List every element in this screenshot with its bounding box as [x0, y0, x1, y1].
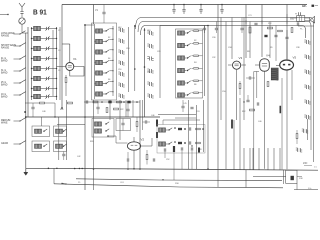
capacitor C66 AF [143, 120, 151, 123]
wire drop x250 [249, 22, 251, 59]
wire V5 leads [276, 66, 287, 170]
capacitor C61a [108, 101, 111, 104]
wire drop bottom x280 [279, 148, 281, 170]
wire bank A rail left [27, 27, 29, 117]
capacitor C92 [191, 145, 193, 150]
resistor R36 [296, 130, 298, 144]
wire drop bottom x274 [273, 148, 275, 170]
resistor R4 AGC [68, 102, 73, 104]
wire padder col rail [128, 27, 130, 92]
svg-text:C32: C32 [212, 57, 215, 59]
wire centre rail e [132, 100, 134, 117]
wire drop x218 [217, 5, 219, 170]
label band 41 m [1, 56, 26, 63]
wire bank A rail 4 [59, 27, 61, 100]
wire bank B rail [84, 25, 86, 190]
svg-text:GRAM: GRAM [1, 142, 8, 145]
padder C20 [118, 28, 124, 32]
svg-text:R30: R30 [175, 183, 180, 185]
transformer output [297, 16, 305, 22]
capacitor C90 [164, 148, 166, 158]
svg-text:BAND: BAND [1, 95, 8, 98]
mixer coil L16 [178, 30, 203, 35]
wire drop x287 [286, 5, 288, 60]
wire drop bottom x244 [243, 148, 245, 170]
resistor R62 [291, 28, 293, 33]
capacitor C47 right low [296, 148, 302, 152]
svg-text:S6: S6 [108, 79, 110, 81]
transformer IFT3 hatched [271, 68, 278, 80]
svg-text:RANGE: RANGE [1, 34, 10, 37]
resistor R60 [249, 27, 251, 33]
junction bus dots [93, 168, 209, 180]
svg-text:C21: C21 [248, 15, 253, 17]
svg-text:V2: V2 [141, 138, 145, 142]
parts small right [243, 101, 258, 105]
svg-text:P.L.: P.L. [300, 28, 304, 30]
wire bank A rail right [56, 27, 58, 100]
wire drop x232 [231, 18, 233, 60]
wire padder link outer [136, 18, 314, 163]
wire drop x283 low [282, 170, 284, 184]
svg-text:S2: S2 [108, 37, 110, 39]
capacitor C34 row [215, 22, 218, 34]
box output unit [157, 125, 205, 154]
oscillator coil L13 [95, 70, 114, 75]
wire bank A to V1 [57, 66, 66, 68]
svg-text:C61: C61 [120, 182, 125, 184]
resistor R61 [268, 27, 273, 29]
svg-text:C52: C52 [166, 159, 169, 161]
wire AGC bus [25, 116, 160, 118]
svg-text:C30: C30 [212, 37, 215, 39]
label band 31 m [1, 68, 26, 75]
capacitor C201 decoupling [199, 4, 202, 14]
wire drop x282 [281, 78, 283, 169]
wire centre rail d [125, 100, 127, 117]
label band LONG WAVE [1, 31, 26, 38]
svg-text:C2: C2 [58, 30, 60, 32]
ground chassis [24, 168, 28, 175]
svg-text:C12: C12 [118, 27, 121, 29]
wire centre rail b [109, 100, 111, 120]
capacitor C33 row [203, 26, 206, 34]
padder C30 [147, 82, 153, 86]
resistor R25 dark [156, 120, 158, 127]
svg-text:V5: V5 [293, 56, 297, 60]
box wave switch unit [92, 119, 114, 138]
wire V2 anode [133, 137, 135, 142]
coil L3 with trimmer C3 [31, 46, 57, 50]
svg-text:R38: R38 [299, 178, 304, 180]
svg-text:V1: V1 [73, 57, 77, 61]
svg-text:RANGE: RANGE [1, 46, 10, 49]
wire out line1 [158, 114, 196, 116]
svg-text:BAND: BAND [1, 59, 8, 62]
padder C26 [147, 31, 153, 35]
wire drop x226 [225, 22, 227, 170]
wire drop x246 low [245, 170, 247, 188]
capacitor C68 [127, 152, 129, 170]
capacitor C67 bypass [153, 158, 155, 161]
svg-text:BAND: BAND [1, 83, 8, 86]
capacitor C97 [297, 22, 299, 25]
speaker LS [305, 16, 315, 23]
padder C43 [304, 85, 310, 89]
wire speaker leads [290, 18, 314, 30]
svg-text:S4: S4 [108, 58, 110, 60]
svg-text:C14: C14 [126, 48, 129, 50]
wire drop x218 low [217, 169, 219, 187]
wire top right links [246, 14, 287, 24]
wire padder col rail2 [134, 25, 136, 91]
wire out link right [163, 120, 200, 125]
svg-text:V4: V4 [266, 54, 270, 58]
svg-text:1.5: 1.5 [314, 167, 318, 169]
mixer coil L18 [178, 55, 203, 60]
resistor R24 vol [136, 117, 138, 132]
capacitor C35 row [240, 18, 243, 34]
padder C27 [147, 44, 153, 48]
svg-text:BAND: BAND [1, 71, 8, 74]
svg-text:C16: C16 [118, 69, 121, 71]
label part values [78, 182, 180, 185]
capacitor aerial coupling [20, 12, 23, 17]
mixer coil L17 [178, 43, 203, 48]
svg-text:C20: C20 [157, 51, 160, 53]
wire left earth drop [25, 33, 27, 168]
oscillator coil L15 [95, 91, 114, 96]
capacitor C96 [274, 35, 277, 37]
wire det row link [84, 101, 140, 103]
capacitor C70 [181, 100, 184, 112]
svg-text:C38: C38 [296, 47, 299, 49]
capacitor C60 [86, 100, 88, 103]
box IF filter [116, 119, 131, 131]
capacitor C222 decoupling [220, 4, 223, 14]
oscillator coil L10 [95, 39, 114, 44]
wire centre rail g [142, 100, 144, 130]
wire padder link middle [138, 22, 311, 151]
resistor R50 dark [173, 146, 175, 152]
wire out line2 [175, 117, 196, 119]
switch output row2 [159, 141, 201, 146]
capacitor C98 dark [264, 35, 267, 37]
wire left terminal [0, 14, 9, 15]
wire earth bus [26, 168, 318, 170]
wire V2 grid [116, 142, 127, 144]
capacitor C62 [127, 101, 130, 104]
resistor R40 dark [291, 176, 294, 180]
wire drop x221 [220, 18, 222, 121]
wire drop x292 [291, 70, 293, 100]
svg-text:R31: R31 [196, 111, 201, 113]
switch gram group y126 [32, 126, 50, 137]
resistor R1 V1 grid [65, 75, 67, 96]
resistor R10 V3 bias [239, 81, 241, 95]
coil L1 with trimmer C1 [31, 26, 57, 30]
svg-text:C22: C22 [147, 72, 150, 74]
svg-text:WAVE: WAVE [1, 121, 8, 124]
capacitor C99 top mid [102, 5, 105, 24]
label top parts [248, 15, 295, 25]
wire drop bottom x268 [267, 148, 269, 170]
wire aerial to switch [22, 28, 28, 33]
wire HT+ top bus [62, 4, 307, 6]
screen box bank C [176, 29, 203, 98]
svg-text:R2: R2 [194, 40, 196, 42]
svg-text:V1: V1 [95, 9, 99, 12]
capacitor C56 top [296, 12, 301, 15]
wire bank C rail left [144, 28, 146, 117]
label B 91 [33, 7, 47, 16]
switch unit contacts [95, 122, 110, 133]
box dropper [286, 170, 297, 183]
svg-text:C6: C6 [58, 70, 60, 72]
svg-text:HF-: HF- [302, 4, 307, 8]
oscillator coil L14 [95, 81, 114, 86]
svg-text:C18: C18 [147, 30, 150, 32]
wire gram link [57, 123, 85, 125]
padder C31 [147, 94, 153, 98]
capacitor C52 coupling [285, 30, 288, 39]
resistor R22 [106, 108, 108, 113]
svg-text:C4: C4 [58, 50, 60, 52]
wire mains line [253, 175, 302, 177]
svg-text:R28: R28 [198, 149, 201, 151]
resistor R20 [93, 101, 98, 103]
wire bank A rail 3 [52, 30, 54, 96]
capacitor C184 decoupling [182, 4, 185, 14]
wire drop x262 [261, 5, 263, 58]
svg-text:R12: R12 [268, 23, 273, 25]
svg-text:R26: R26 [60, 109, 63, 111]
svg-text:25: 25 [78, 182, 81, 184]
switch output row1 [159, 127, 204, 132]
svg-text:C34: C34 [228, 47, 231, 49]
capacitor C63 [96, 103, 99, 114]
padder C44 [304, 100, 310, 104]
valve V3 [233, 56, 243, 69]
wire drop x276 [275, 26, 277, 62]
padder C45 [304, 115, 310, 119]
oscillator coil L12 [95, 60, 114, 65]
svg-text:R6: R6 [194, 84, 196, 86]
valve V2 [127, 138, 144, 151]
resistor R63 [278, 30, 283, 32]
resistor R23 [114, 108, 119, 110]
svg-text:V3: V3 [239, 56, 243, 60]
svg-text:R20: R20 [90, 141, 93, 143]
svg-text:C50: C50 [222, 91, 225, 93]
coil L6 with trimmer C6 [31, 76, 57, 80]
oscillator coil L11 [95, 49, 114, 54]
mixer coil L19 [178, 68, 203, 73]
capacitor C71 [190, 107, 193, 109]
padder C24 [118, 72, 124, 76]
coil L5 with trimmer C5 [31, 66, 57, 70]
switch gram group B1 [54, 126, 67, 137]
resistor R27 V2 cathode [146, 150, 148, 165]
wire drop bottom x250 [249, 148, 251, 170]
wire V4 leads [255, 65, 265, 169]
wire AF links [107, 135, 116, 143]
mixer coil L20 [178, 80, 203, 85]
svg-text:C45: C45 [183, 103, 188, 105]
svg-text:C40: C40 [258, 121, 261, 123]
capacitor C91 [181, 147, 183, 150]
svg-text:R22: R22 [120, 109, 123, 111]
wire V4V5 link [254, 71, 259, 73]
svg-text:C23: C23 [290, 19, 295, 21]
label voltage [303, 163, 312, 166]
wire lower bus 2 [76, 179, 282, 181]
wire drop x270 [269, 22, 271, 59]
svg-text:R4: R4 [194, 62, 196, 64]
mixer coil L21 [178, 92, 203, 97]
valve V4 [260, 54, 270, 72]
wire bank C rail mid [159, 26, 161, 99]
wire padder link inner [141, 26, 306, 39]
junction bank C [144, 29, 146, 68]
capacitor C50 V3 cathode [246, 76, 255, 79]
aerial [19, 3, 25, 11]
svg-text:C48: C48 [42, 111, 45, 113]
svg-text:R12: R12 [242, 111, 245, 113]
wire drop x246 [245, 5, 247, 59]
label band 25 m [1, 80, 26, 87]
label HF pentode [302, 4, 318, 8]
fuse bottom [61, 183, 66, 185]
wire drop bottom x253 [252, 148, 254, 170]
capacitor C80 [246, 95, 249, 102]
capacitor C30 AGC [31, 103, 34, 117]
coil L2 with trimmer C2 [31, 36, 57, 40]
wire top bus left drop [61, 5, 63, 109]
wire bottom-left drop [53, 168, 55, 184]
wire centre rail c [119, 100, 121, 140]
coil L4 with trimmer C4 [31, 56, 57, 60]
junction earth dots [48, 168, 83, 170]
capacitor C64 [126, 103, 129, 117]
wire V3 leads [228, 65, 246, 120]
resistor R37 dark [280, 106, 282, 114]
capacitor C32 gram [62, 152, 65, 161]
label component values scatter [42, 27, 299, 161]
junction det dots [101, 101, 138, 103]
wire drop x244 [243, 18, 245, 121]
wire V5 anode up [286, 40, 288, 61]
coil L7 with trimmer C7 [31, 86, 57, 90]
wire bank A rail 2 [31, 27, 33, 100]
svg-text:R9: R9 [270, 47, 272, 49]
valve V1 [66, 57, 77, 71]
resistor R11 V4 bias [267, 82, 269, 87]
wire padder column rail [307, 119, 309, 140]
wire centre rail f [139, 100, 141, 169]
label osc [95, 9, 99, 12]
resistor R26 dark [156, 132, 158, 138]
padder C46 [302, 129, 308, 133]
label right edge [299, 167, 318, 190]
capacitor C65 [121, 119, 124, 131]
padder C26 [118, 94, 124, 98]
resistor R3 AGC [33, 102, 55, 104]
wire centre rail a [93, 100, 95, 190]
svg-text:B 91: B 91 [33, 7, 47, 16]
wire mid links [25, 103, 56, 118]
padder C40 [304, 40, 310, 44]
resistor R32 dark [231, 120, 233, 129]
wire oscillator drop [93, 5, 95, 25]
wire V1 cathode loop [70, 67, 84, 77]
screen box oscillator bank [92, 23, 117, 100]
trimmer aerial [19, 18, 25, 28]
svg-text:C42: C42 [77, 156, 80, 158]
svg-text:R8: R8 [247, 51, 249, 53]
coil L8 with trimmer C8 [31, 94, 57, 98]
wire V2 right link [141, 138, 152, 146]
wire osc top link [85, 24, 94, 26]
wire out rails [189, 100, 204, 169]
wire drop bottom x259 [258, 148, 260, 170]
wire right verticals [234, 98, 240, 170]
wire bottom bus 3 [54, 184, 283, 188]
padder C22 [118, 50, 124, 54]
label band SHORT WAVE [1, 43, 26, 50]
padder C41 [304, 55, 310, 59]
wire V2 cathode [133, 150, 135, 169]
wire bank B rail2 [94, 24, 96, 99]
wire bank C right rails [160, 25, 209, 169]
valve V5 [280, 56, 297, 71]
resistor R35 [250, 109, 255, 111]
padder C29 [147, 69, 153, 73]
padder C25 [118, 83, 124, 87]
svg-text:23O: 23O [303, 163, 308, 165]
padder C42 [304, 70, 310, 74]
wire drop x253 low [254, 72, 257, 170]
svg-text:5Oc: 5Oc [308, 188, 312, 190]
label band MEDIUM [1, 118, 26, 125]
junction AGC dots [24, 107, 86, 118]
wire V1 anode [62, 44, 70, 63]
padder C23 [118, 61, 124, 65]
label out parts [183, 103, 201, 113]
wire gram rails [42, 100, 67, 160]
padder C28 [147, 57, 153, 61]
resistor R21 [117, 101, 122, 103]
capacitor C174 decoupling [172, 4, 175, 14]
junction bank B top [84, 24, 86, 26]
label band 19 m [1, 92, 26, 99]
svg-text:C46: C46 [151, 115, 154, 117]
label band GRAM [1, 141, 26, 145]
wire bottom right line [294, 183, 318, 189]
wire mid drops [174, 151, 192, 180]
switch gram group y141 [32, 141, 50, 152]
switch gram group B2 [54, 141, 67, 152]
resistor R51 [198, 148, 200, 153]
capacitor C95 [254, 23, 257, 25]
wire bank B right rail [112, 26, 114, 96]
oscillator coil L9 [95, 28, 114, 33]
padder C21 [118, 39, 124, 43]
